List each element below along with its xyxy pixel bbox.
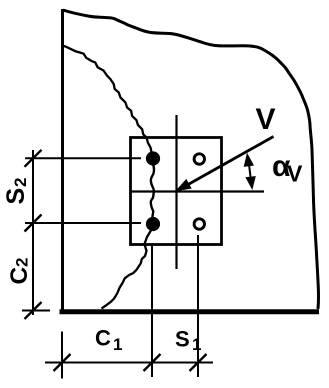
svg-text:S: S: [175, 327, 190, 352]
svg-text:1: 1: [113, 335, 122, 354]
svg-text:S: S: [2, 188, 30, 205]
svg-text:2: 2: [13, 258, 32, 267]
svg-text:C: C: [6, 267, 33, 285]
svg-text:C: C: [95, 326, 111, 351]
svg-text:V: V: [256, 103, 276, 136]
svg-text:V: V: [287, 161, 303, 187]
svg-text:1: 1: [192, 335, 201, 354]
svg-text:2: 2: [11, 178, 30, 187]
